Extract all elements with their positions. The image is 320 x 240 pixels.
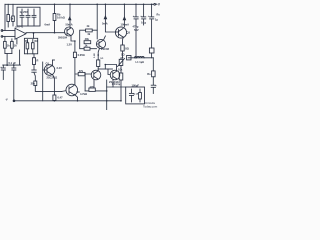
svg-text:100mA: 100mA [121, 23, 130, 27]
svg-text:0.47: 0.47 [58, 96, 64, 100]
svg-text:1Ω: 1Ω [100, 58, 103, 60]
svg-text:50mA: 50mA [66, 23, 73, 27]
svg-text:C04.1µ: C04.1µ [112, 82, 121, 86]
svg-text:Today.com: Today.com [143, 105, 158, 109]
svg-text:47k: 47k [79, 69, 84, 73]
svg-text:0.1µ: 0.1µ [141, 21, 147, 25]
svg-text:+V: +V [156, 2, 160, 6]
svg-text:1.2V: 1.2V [67, 42, 73, 46]
svg-text:Ro: Ro [147, 72, 151, 76]
svg-text:C: C [134, 92, 136, 96]
svg-text:Q1: Q1 [46, 62, 50, 66]
svg-text:470: 470 [90, 85, 95, 89]
svg-text:2N5184: 2N5184 [58, 36, 68, 40]
svg-text:P: P [137, 92, 139, 96]
svg-text:Rs: Rs [157, 13, 161, 17]
svg-text:Q3: Q3 [127, 31, 131, 35]
svg-text:0.8 kΩ: 0.8 kΩ [57, 16, 65, 20]
svg-text:4.7kΩ: 4.7kΩ [80, 92, 87, 96]
svg-text:5Ω: 5Ω [121, 53, 125, 57]
svg-text:470µ: 470µ [133, 25, 139, 29]
svg-text:1µ: 1µ [155, 18, 158, 22]
svg-text:0.05Ω: 0.05Ω [78, 53, 85, 57]
svg-text:5mA: 5mA [102, 22, 108, 26]
svg-text:10k: 10k [118, 68, 123, 72]
svg-text:L1 1µH: L1 1µH [136, 60, 145, 64]
svg-text:R2: R2 [35, 39, 39, 43]
svg-text:R: R [37, 59, 39, 63]
svg-text:-V: -V [5, 98, 8, 102]
svg-text:2SC08: 2SC08 [101, 47, 109, 51]
svg-text:20k: 20k [31, 81, 36, 85]
svg-text:40k: 40k [85, 37, 90, 41]
svg-text:1µ 25V: 1µ 25V [20, 10, 29, 14]
svg-text:0.1 µF: 0.1 µF [9, 61, 17, 65]
svg-text:8Ω: 8Ω [125, 47, 129, 51]
svg-text:100µF: 100µF [132, 84, 140, 88]
svg-text:0.5R: 0.5R [94, 53, 96, 58]
svg-text:µA741: µA741 [16, 25, 24, 29]
svg-text:R1: R1 [25, 39, 29, 43]
svg-text:2SC2911: 2SC2911 [47, 76, 58, 80]
svg-text:6mA: 6mA [45, 23, 51, 27]
svg-text:50V: 50V [134, 28, 139, 32]
svg-text:2.4V: 2.4V [57, 66, 63, 70]
